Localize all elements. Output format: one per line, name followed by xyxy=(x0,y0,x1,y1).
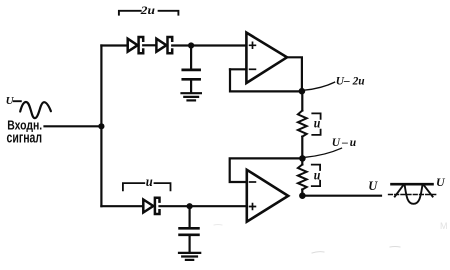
wire U1 output xyxy=(287,57,302,91)
leader line U-u xyxy=(305,148,342,157)
node U-2u xyxy=(299,88,306,95)
label U-u xyxy=(332,137,357,149)
bracket label u R1 xyxy=(312,113,320,134)
resistor R1 xyxy=(298,111,307,137)
node bottom capacitor junction xyxy=(187,203,193,209)
diode VD1 xyxy=(128,37,144,53)
wire node to resistor R1 xyxy=(301,91,303,110)
U2 plus sign xyxy=(250,204,256,210)
wire main vertical xyxy=(100,46,102,207)
op-amp U1 xyxy=(246,33,287,83)
leader line U-2u xyxy=(304,82,335,90)
wire node to op-amp U2 plus input xyxy=(190,205,247,207)
label U waveform xyxy=(436,175,446,189)
op-amp U2 xyxy=(247,170,288,222)
U1 minus sign xyxy=(250,68,256,70)
bracket label u bottom branch xyxy=(123,183,171,190)
node input junction xyxy=(98,123,104,129)
wire output xyxy=(302,195,381,197)
node U-u xyxy=(299,155,306,162)
wire node to resistor R2 xyxy=(301,158,303,164)
wire R2 to output node xyxy=(301,190,303,196)
input sine squiggle xyxy=(20,102,51,118)
svg-text:2u: 2u xyxy=(140,3,156,17)
U1 plus sign xyxy=(250,42,256,48)
output waveform dashed axis xyxy=(389,194,436,196)
wire node to op-amp U1 plus input xyxy=(191,44,246,46)
wire between diodes xyxy=(143,44,156,46)
wire bottom branch to diode VD3 xyxy=(101,205,143,207)
svg-text:u: u xyxy=(314,168,321,183)
svg-text:М: М xyxy=(440,221,448,231)
wire U2 feedback rail xyxy=(230,158,303,182)
svg-text:U: U xyxy=(436,175,446,189)
diode VD2 xyxy=(156,37,172,53)
bracket label 2u xyxy=(119,11,178,15)
capacitor C2 xyxy=(180,206,199,251)
ground C2 xyxy=(179,253,200,260)
svg-text:u: u xyxy=(314,115,321,130)
svg-text:u: u xyxy=(146,174,153,189)
label U~ input source xyxy=(6,95,15,107)
U2 minus sign xyxy=(250,181,256,183)
svg-text:сигнал: сигнал xyxy=(7,131,43,147)
wire diode VD3 to node xyxy=(160,205,190,207)
wire U1 minus input xyxy=(230,68,246,70)
label U-2u xyxy=(336,75,365,87)
label Входн. сигнал xyxy=(7,118,43,147)
faint scan ghost marks xyxy=(440,221,448,231)
wire input horizontal xyxy=(45,125,102,127)
wire U1 feedback xyxy=(230,69,302,91)
wire diode VD2 to node xyxy=(172,44,191,46)
svg-text:U–u: U–u xyxy=(332,137,357,149)
diode VD3 xyxy=(143,198,159,214)
dash after U xyxy=(14,100,21,102)
output waveform clipped sine xyxy=(395,185,433,204)
svg-text:U– 2u: U– 2u xyxy=(336,75,365,87)
label U output xyxy=(368,179,378,193)
node output junction xyxy=(299,192,306,199)
capacitor C1 xyxy=(183,46,200,92)
svg-text:U: U xyxy=(368,179,378,193)
bracket label u R2 xyxy=(312,165,320,187)
wire R1 to node U-u xyxy=(301,137,303,159)
ground C1 xyxy=(182,93,201,100)
output waveform clipping bar xyxy=(392,183,433,186)
resistor R2 xyxy=(298,165,307,190)
node top capacitor junction xyxy=(188,42,194,48)
wire top branch to diode VD1 xyxy=(101,44,127,46)
